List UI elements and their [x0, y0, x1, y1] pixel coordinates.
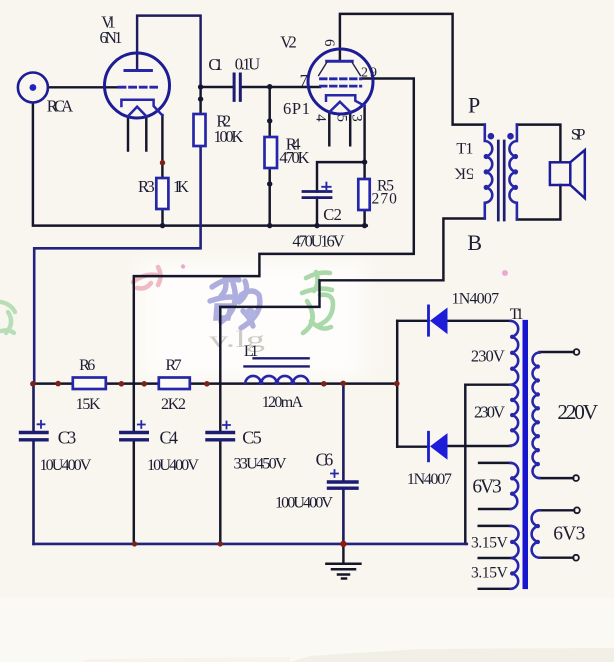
svg-text:6: 6	[321, 39, 337, 47]
svg-text:7: 7	[300, 71, 308, 90]
svg-text:10U400V: 10U400V	[147, 456, 199, 474]
svg-text:6V3: 6V3	[472, 477, 501, 498]
svg-text:T1: T1	[456, 141, 473, 158]
svg-text:230V: 230V	[474, 403, 505, 422]
svg-text:R7: R7	[166, 357, 182, 374]
svg-text:1N4007: 1N4007	[407, 471, 452, 488]
svg-text:C1: C1	[208, 55, 223, 74]
svg-text:V2: V2	[280, 33, 297, 52]
svg-text:T1: T1	[510, 306, 524, 323]
svg-text:2: 2	[361, 66, 368, 81]
svg-text:C2: C2	[323, 205, 342, 224]
svg-text:100K: 100K	[214, 127, 244, 146]
svg-text:2K2: 2K2	[161, 396, 186, 413]
svg-text:P: P	[468, 93, 480, 118]
svg-text:1K: 1K	[173, 177, 189, 196]
svg-text:6V3: 6V3	[553, 524, 585, 545]
svg-text:15K: 15K	[76, 396, 101, 413]
svg-text:230V: 230V	[471, 347, 505, 366]
svg-text:4: 4	[312, 114, 328, 122]
svg-text:C4: C4	[160, 428, 179, 448]
svg-text:5K: 5K	[454, 165, 474, 182]
svg-text:C3: C3	[58, 428, 76, 448]
svg-text:9: 9	[370, 66, 377, 81]
svg-text:0.1U: 0.1U	[235, 55, 261, 74]
svg-text:470K: 470K	[279, 148, 309, 167]
svg-text:120mA: 120mA	[262, 394, 304, 411]
svg-text:R3: R3	[138, 177, 155, 196]
svg-text:10U400V: 10U400V	[40, 456, 92, 474]
svg-text:1N4007: 1N4007	[452, 291, 500, 308]
svg-text:220V: 220V	[557, 400, 598, 424]
svg-text:3.15V: 3.15V	[471, 565, 509, 582]
svg-text:3: 3	[348, 114, 364, 122]
svg-text:6P1: 6P1	[283, 99, 310, 118]
svg-text:6N1: 6N1	[100, 28, 123, 47]
svg-text:SP: SP	[571, 127, 586, 144]
svg-text:470U16V: 470U16V	[292, 232, 344, 251]
svg-text:C5: C5	[242, 428, 262, 448]
svg-text:R6: R6	[79, 357, 95, 374]
svg-text:C6: C6	[316, 450, 334, 470]
svg-text:5: 5	[334, 115, 350, 123]
svg-text:B: B	[467, 230, 482, 255]
svg-text:100U400V: 100U400V	[275, 494, 333, 512]
svg-text:270: 270	[372, 191, 398, 208]
svg-text:3.15V: 3.15V	[471, 535, 509, 552]
svg-text:L1: L1	[244, 343, 259, 360]
svg-text:RCA: RCA	[47, 97, 74, 116]
svg-text:33U450V: 33U450V	[234, 455, 287, 473]
